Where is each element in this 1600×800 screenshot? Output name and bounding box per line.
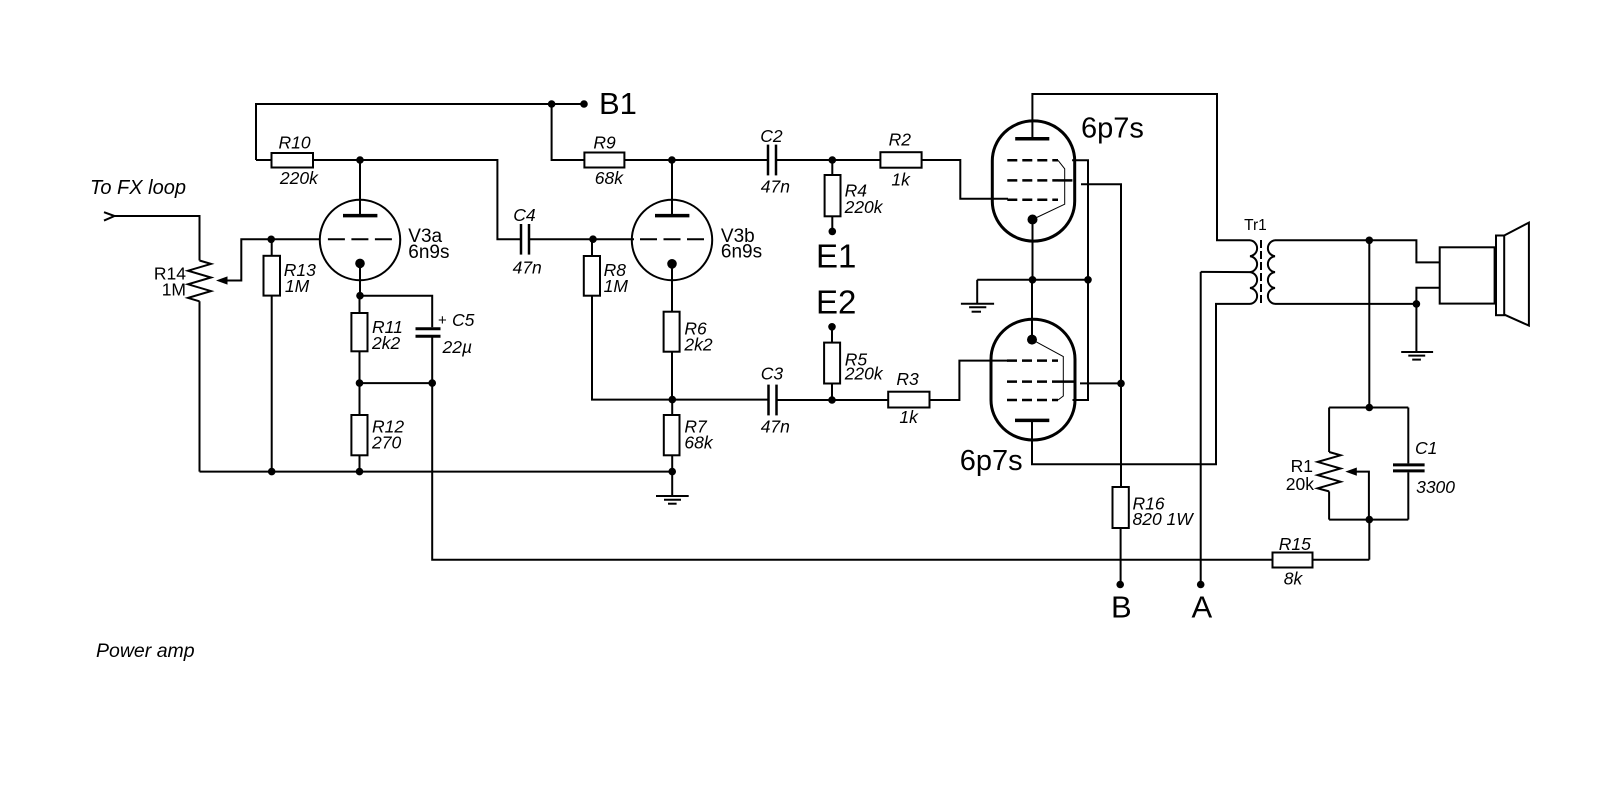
speaker flange (1496, 236, 1504, 316)
V3b grid dashes (640, 238, 704, 240)
resistor R13 (271, 239, 273, 256)
wire secondary node down to R1C1 (1368, 240, 1370, 407)
resistor R8 (591, 239, 593, 256)
V3a cathode dot (355, 259, 365, 269)
U2 g2 stub to envelope (1058, 380, 1075, 383)
node V3a cathode junction (356, 292, 364, 300)
node C4/R8 junction (589, 235, 597, 243)
node R13 bottom (268, 468, 276, 476)
node B1 junction (548, 100, 556, 108)
capacitor C5 (416, 327, 441, 330)
transformer Tr1 primary centre tap (1201, 271, 1250, 273)
cathode row wire (977, 279, 1088, 281)
node R1C1 top junction (1366, 404, 1374, 412)
svg-text:47n: 47n (761, 177, 790, 197)
V3a plate lead (359, 160, 361, 214)
svg-text:1M: 1M (285, 276, 310, 296)
V3b plate lead (671, 160, 673, 214)
svg-text:2k2: 2k2 (683, 335, 712, 355)
svg-text:1k: 1k (891, 170, 911, 190)
node B terminal (1116, 581, 1124, 589)
svg-text:C2: C2 (760, 126, 783, 146)
svg-text:1k: 1k (899, 407, 919, 427)
wire C5 bottom to feedback (432, 336, 1272, 560)
U1 grid g3 dashes (1007, 159, 1058, 162)
pentode U2 6p7s lower envelope (991, 319, 1075, 440)
svg-text:E2: E2 (816, 284, 856, 321)
wire grid node to V3a (271, 238, 320, 240)
svg-text:C4: C4 (513, 205, 536, 225)
wire plate node to C4 (360, 160, 520, 239)
svg-text:6p7s: 6p7s (960, 445, 1023, 477)
resistor R12 (351, 415, 367, 455)
svg-text:B: B (1111, 590, 1132, 625)
svg-text:47n: 47n (761, 417, 790, 437)
svg-text:6n9s: 6n9s (721, 242, 762, 263)
capacitor C3 (767, 385, 770, 416)
R1 wiper arrow (1345, 468, 1357, 476)
svg-text:68k: 68k (595, 168, 624, 188)
speaker LS1 driver box (1440, 247, 1495, 303)
svg-text:6p7s: 6p7s (1081, 113, 1144, 145)
potentiometer R1 (1328, 408, 1330, 453)
svg-text:220k: 220k (279, 168, 319, 188)
svg-text:E1: E1 (816, 238, 856, 275)
node secondary top junction (1366, 237, 1374, 245)
capacitor C4 (520, 224, 523, 255)
svg-text:R2: R2 (889, 130, 912, 150)
svg-text:Power amp: Power amp (96, 640, 195, 662)
V3b cathode lead (671, 264, 673, 312)
resistor R6 (664, 312, 680, 352)
U2 plate lead to transformer bottom (1032, 304, 1250, 464)
wire U1 g2 to screen rail (1081, 184, 1121, 487)
U2 grid g1 dashes (1007, 359, 1058, 362)
svg-text:22µ: 22µ (442, 337, 473, 357)
capacitor C1 (1407, 408, 1409, 464)
input arrow (104, 212, 115, 220)
wire R11 bottom to C5 branch (360, 382, 433, 384)
svg-text:R1: R1 (1291, 456, 1313, 476)
wire secondary top to speaker (1275, 240, 1440, 262)
wire V3b plate to C2 (672, 159, 767, 161)
svg-text:3300: 3300 (1416, 477, 1455, 497)
svg-text:8k: 8k (1284, 569, 1304, 589)
svg-text:20k: 20k (1286, 474, 1314, 494)
svg-text:820 1W: 820 1W (1133, 509, 1195, 529)
node C2/R4/R2 junction (829, 156, 837, 164)
V3b cathode dot (667, 259, 677, 269)
triode V3b (632, 200, 712, 280)
resistor R15 (1273, 553, 1313, 568)
resistor R2 (880, 152, 921, 168)
wire V3b cathode node to C3 (672, 399, 767, 401)
svg-text:A: A (1192, 590, 1213, 625)
node speaker bottom junction (1413, 300, 1421, 308)
svg-text:220k: 220k (844, 197, 884, 217)
U2 grid g3 dashes (1007, 399, 1058, 402)
svg-text:6n9s: 6n9s (408, 242, 449, 263)
wire U1 g3 external (1072, 160, 1088, 279)
resistor R7 (671, 400, 673, 415)
wire C4 right to grid node (530, 238, 593, 240)
speaker cone (1504, 223, 1529, 326)
node R12 bottom (356, 468, 364, 476)
resistor R4 (831, 160, 833, 175)
U2 plate bar (1015, 419, 1049, 423)
node V3a plate junction (356, 156, 364, 164)
triode V3a (320, 200, 400, 280)
wire U2 g3 external (1073, 280, 1089, 400)
U1 plate bar (1015, 137, 1049, 141)
wire B1 stub (552, 103, 584, 105)
node V3a grid junction (267, 236, 275, 244)
wire to speaker lower terminal (1416, 288, 1439, 304)
wire wiper to V3a grid (227, 239, 271, 280)
wire A rail (1200, 272, 1202, 585)
svg-text:2k2: 2k2 (371, 333, 400, 353)
U2 grid g2 dashes (1007, 380, 1058, 383)
U2 internal g3-cathode link (1032, 340, 1063, 400)
potentiometer R14 (188, 261, 211, 302)
wire C3 to R5 node (778, 399, 889, 401)
resistor R3 (888, 392, 929, 408)
node C3/R5/R3 junction (828, 396, 836, 404)
U1 g2 stub to envelope (1058, 179, 1072, 182)
pentode U1 6p7s upper envelope (992, 121, 1074, 241)
node screen rail junction (1117, 380, 1125, 388)
U1 grid g1 dashes (1007, 198, 1058, 201)
wire input to R14 top (115, 216, 200, 261)
svg-text:C5: C5 (452, 310, 475, 330)
node V3b cathode junction (669, 396, 677, 404)
transformer Tr1 primary winding (1250, 240, 1257, 304)
svg-text:Tr1: Tr1 (1244, 217, 1267, 234)
svg-text:R15: R15 (1279, 534, 1311, 554)
ground row wire (200, 471, 673, 473)
transformer Tr1 core (1260, 240, 1262, 305)
U1 grid g2 dashes (1007, 179, 1058, 182)
ground under speaker (1415, 304, 1417, 352)
wire B1 rail (256, 104, 552, 160)
node B1 terminal (580, 100, 588, 108)
resistor R5 (831, 327, 833, 343)
wire C2 to R4 node (777, 159, 880, 161)
node g3 rail junction (1084, 276, 1092, 284)
transformer Tr1 secondary winding (1268, 240, 1275, 304)
svg-text:R9: R9 (593, 133, 616, 153)
resistor R9 (584, 153, 624, 168)
svg-text:C3: C3 (761, 364, 784, 384)
svg-text:220k: 220k (844, 364, 884, 384)
resistor R10 (256, 159, 272, 161)
wire R2 to tube1 g1 (922, 160, 1008, 199)
svg-text:C1: C1 (1415, 438, 1437, 458)
wire grid node to V3b (593, 238, 634, 240)
ground under R7 (671, 472, 673, 496)
ground at cathode row (976, 280, 978, 304)
svg-text:B1: B1 (599, 86, 637, 121)
node E1 terminal (829, 228, 837, 236)
node R11 bottom (356, 379, 364, 387)
U1 cathode dot (1028, 215, 1038, 225)
svg-text:1M: 1M (604, 276, 629, 296)
wire secondary bottom (1275, 303, 1416, 305)
node C5 branch (428, 379, 436, 387)
V3a grid dashes (328, 238, 392, 240)
U1 plate lead and top wire (1032, 94, 1250, 240)
resistor R11 (359, 296, 361, 313)
R14 wiper arrow (216, 276, 228, 284)
V3a cathode lead (359, 263, 361, 295)
wire U2 g2 to screen rail (1080, 382, 1121, 384)
U2 cathode lead (1031, 280, 1033, 340)
node R1C1 bottom junction (1366, 516, 1374, 524)
node ground row right (668, 468, 676, 476)
wire B1 junction down to R9 (552, 104, 585, 160)
wire cathode row to C5 (360, 296, 432, 328)
capacitor C2 (767, 145, 770, 176)
svg-text:+: + (438, 312, 447, 329)
wire wiper to bottom rail (1356, 472, 1369, 520)
svg-text:68k: 68k (684, 433, 713, 453)
R1C1 bottom rail (1329, 519, 1408, 521)
wire R3 to tube2 g1 (930, 361, 1009, 400)
svg-text:270: 270 (371, 433, 401, 453)
U1 internal g3-cathode link (1034, 160, 1065, 219)
svg-text:47n: 47n (513, 258, 542, 278)
R1C1 top rail (1329, 407, 1408, 409)
node E2 terminal (828, 323, 836, 331)
U1 cathode lead (1032, 220, 1034, 280)
wire bottom junction to R15 wire (1368, 520, 1370, 560)
wire R14 bottom to ground row (199, 301, 201, 471)
svg-text:R10: R10 (279, 133, 311, 153)
U2 cathode dot (1027, 335, 1037, 345)
node V3b plate junction (668, 156, 676, 164)
svg-text:1M: 1M (162, 280, 186, 300)
node A terminal (1197, 581, 1205, 589)
resistor R16 (1113, 487, 1129, 528)
svg-text:R3: R3 (896, 369, 919, 389)
node U1 cathode junction (1029, 276, 1037, 284)
svg-text:To FX loop: To FX loop (90, 177, 186, 199)
